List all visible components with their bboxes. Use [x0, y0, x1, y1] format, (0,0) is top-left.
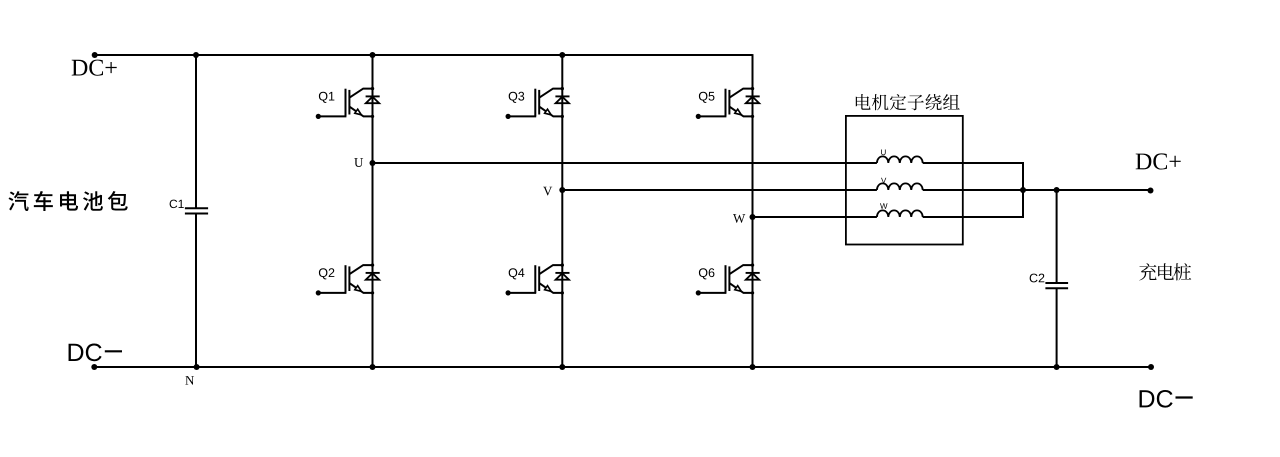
Q3 body bar: [538, 90, 540, 115]
Q4 gate lead wire: [508, 292, 536, 294]
Q6 emitter arrow: [735, 286, 742, 292]
Q2 gate terminal dot: [316, 290, 321, 295]
Q5 body bar: [728, 90, 730, 115]
freewheel diode of Q2: triangle: [366, 273, 379, 280]
Q4 emitter arrow: [545, 286, 552, 292]
label winding V: [881, 178, 886, 184]
label C2: [1030, 274, 1045, 283]
Q4 emitter junction: [561, 291, 564, 294]
wire: winding V output / DC+ bus to charger: [923, 189, 1151, 191]
Q3 collector junction: [561, 87, 564, 90]
Q4 label: [509, 268, 525, 279]
junction dot leg1 bottom: [370, 364, 376, 370]
Q2 label: [319, 268, 334, 279]
freewheel diode of Q1: cathode bar: [366, 95, 380, 97]
label DC+ (battery side): [72, 60, 117, 76]
junction dot leg3 bottom: [750, 364, 756, 370]
junction dot C2 top: [1054, 187, 1060, 193]
wire: phase U to winding: [373, 162, 877, 164]
label node N: [185, 376, 194, 385]
junction dot leg2 top: [559, 52, 565, 58]
Q4 collector diagonal: [539, 265, 562, 274]
freewheel diode of Q5: cathode bar: [746, 95, 760, 97]
terminal dot DC- left: [91, 364, 97, 370]
wire: C1 branch lower: [195, 214, 197, 368]
node W junction dot: [750, 214, 756, 220]
Q6 emitter junction: [751, 291, 754, 294]
Q2 body bar: [348, 266, 350, 291]
wire: C1 branch upper: [195, 55, 197, 208]
transistor Q2 (IGBT with antiparallel diode): [316, 263, 380, 295]
Q5 emitter junction: [751, 115, 754, 118]
inductor winding W: [877, 210, 923, 217]
capacitor C2: [1045, 283, 1068, 288]
Q1 emitter diagonal: [349, 107, 372, 117]
wire: vertical leg 3 (phase W half-bridge): [752, 54, 754, 367]
Q6 gate bar: [725, 265, 727, 293]
wire: C2 branch lower: [1056, 288, 1058, 367]
transistor Q1 (IGBT with antiparallel diode): [316, 87, 380, 119]
Q5 gate bar: [725, 89, 727, 117]
Q2 collector junction: [371, 263, 374, 266]
label 充电桩 (charging pile): [1139, 263, 1191, 280]
wire: phase W to winding: [753, 216, 877, 218]
inductor winding U: [877, 156, 923, 163]
freewheel diode of Q1: triangle: [366, 97, 379, 104]
label winding U: [881, 149, 886, 155]
junction dot node N: [194, 364, 200, 370]
transistor Q6 (IGBT with antiparallel diode): [696, 263, 760, 295]
Q1 collector junction: [371, 87, 374, 90]
terminal dot DC- right: [1148, 364, 1154, 370]
label node W: [733, 214, 745, 223]
Q1 collector diagonal: [349, 89, 372, 98]
junction dot C2 bottom: [1054, 364, 1060, 370]
Q3 gate bar: [534, 89, 536, 117]
Q5 collector junction: [751, 87, 754, 90]
wire: DC+ top rail: [95, 54, 753, 56]
label 电机定子绕组 (motor stator winding): [856, 94, 960, 110]
freewheel diode of Q5: triangle: [746, 97, 759, 104]
Q3 gate terminal dot: [506, 114, 511, 119]
Q2 emitter junction: [371, 291, 374, 294]
label node U: [354, 158, 363, 167]
label DC- (charger side): [1140, 390, 1173, 408]
wire: winding U output to join: [923, 163, 1023, 190]
Q3 emitter diagonal: [539, 107, 562, 117]
label node V: [543, 187, 552, 196]
Q4 gate terminal dot: [506, 290, 511, 295]
Q6 collector diagonal: [729, 265, 752, 274]
label 汽车电池包 (car battery pack): [9, 191, 128, 211]
Q3 collector diagonal: [539, 89, 562, 98]
transistor Q5 (IGBT with antiparallel diode): [696, 87, 760, 119]
Q2 collector diagonal: [349, 265, 372, 274]
Q5 label: [699, 92, 715, 103]
terminal dot DC+ right: [1148, 188, 1154, 194]
freewheel diode of Q4: cathode bar: [555, 272, 569, 274]
Q4 collector junction: [561, 263, 564, 266]
Q4 body bar: [538, 266, 540, 291]
Q1 gate terminal dot: [316, 114, 321, 119]
Q2 gate bar: [345, 265, 347, 293]
label C1: [170, 200, 184, 208]
Q3 emitter junction: [561, 115, 564, 118]
node U junction dot: [370, 160, 376, 166]
freewheel diode of Q2: cathode bar: [366, 272, 380, 274]
terminal dot DC+ left: [92, 52, 98, 58]
dash of DC- left: [105, 350, 122, 352]
Q5 collector diagonal: [729, 89, 752, 98]
inductor winding V: [877, 183, 923, 190]
Q6 body bar: [728, 266, 730, 291]
wire: C2 branch upper: [1056, 190, 1058, 283]
junction dot leg1 top: [370, 52, 376, 58]
label DC+ (charger side): [1136, 153, 1181, 169]
freewheel diode of Q4: triangle: [556, 273, 569, 280]
transistor Q3 (IGBT with antiparallel diode): [506, 87, 570, 119]
Q6 gate terminal dot: [696, 290, 701, 295]
Q1 emitter junction: [371, 115, 374, 118]
Q3 emitter arrow: [545, 109, 552, 115]
junction dot leg2 bottom: [559, 364, 565, 370]
label DC- (battery side): [69, 344, 102, 362]
dash of DC- right: [1176, 396, 1193, 398]
wire: phase V to winding: [562, 189, 877, 191]
Q3 gate lead wire: [508, 115, 536, 117]
Q6 collector junction: [751, 263, 754, 266]
Q1 emitter arrow: [355, 109, 362, 115]
Q5 emitter arrow: [735, 109, 742, 115]
wire: vertical leg 2 (phase V half-bridge): [561, 55, 563, 367]
freewheel diode of Q6: cathode bar: [746, 272, 760, 274]
Q3 label: [509, 92, 525, 103]
Q6 label: [699, 268, 715, 279]
Q5 gate lead wire: [698, 115, 726, 117]
Q1 gate bar: [345, 89, 347, 117]
Q5 emitter diagonal: [729, 107, 752, 117]
transistor Q4 (IGBT with antiparallel diode): [506, 263, 570, 295]
Q5 gate terminal dot: [696, 114, 701, 119]
Q4 gate bar: [534, 265, 536, 293]
wire: vertical leg 1 (phase U half-bridge): [372, 55, 374, 367]
freewheel diode of Q3: triangle: [556, 97, 569, 104]
wire: winding W output to join: [923, 190, 1023, 217]
Q6 gate lead wire: [698, 292, 726, 294]
capacitor C1: [185, 208, 208, 213]
Q2 emitter arrow: [355, 286, 362, 292]
Q1 gate lead wire: [318, 115, 346, 117]
Q4 emitter diagonal: [539, 283, 562, 293]
Q1 body bar: [348, 90, 350, 115]
junction dot C1 top rail: [193, 52, 199, 58]
node V junction dot: [559, 187, 565, 193]
Q2 gate lead wire: [318, 292, 346, 294]
label winding W: [880, 203, 887, 209]
motor stator winding box: [846, 116, 963, 245]
freewheel diode of Q6: triangle: [746, 273, 759, 280]
Q2 emitter diagonal: [349, 283, 372, 293]
Q6 emitter diagonal: [729, 283, 752, 293]
Q1 label: [319, 92, 334, 103]
freewheel diode of Q3: cathode bar: [555, 95, 569, 97]
junction dot UVW join: [1020, 187, 1026, 193]
wire: DC- bottom rail: [94, 366, 1151, 368]
